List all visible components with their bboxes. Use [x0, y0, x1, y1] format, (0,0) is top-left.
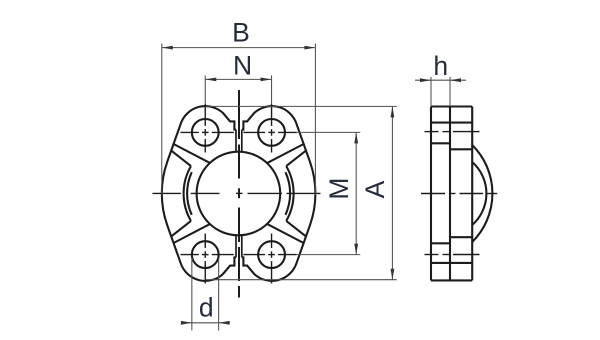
dimension d extension line right [218, 258, 220, 331]
svg-text:A: A [360, 180, 390, 198]
dimension N line [205, 78, 271, 80]
centerline horizontal of bolt hole bottom-left [181, 254, 199, 256]
centerline vertical of bolt hole top-left [204, 104, 206, 126]
side view bottom edge [431, 279, 472, 281]
clamp outline right half [242, 106, 316, 281]
dimension B arrow right [304, 46, 315, 50]
dimension h extension line right [449, 77, 451, 106]
dimension d arrow right [219, 321, 230, 325]
split face lower left [235, 235, 237, 257]
jaw line upper-left inner [174, 144, 210, 163]
svg-text:N: N [233, 50, 252, 80]
main horizontal centerline [153, 192, 181, 194]
svg-text:d: d [199, 293, 214, 323]
centerline horizontal of bolt hole top-left [181, 131, 199, 133]
dimension h extension line left [430, 77, 432, 106]
centerline vertical of bolt hole bottom-right [271, 234, 273, 249]
bolt hole top-left [192, 119, 219, 146]
clamp outline left half [162, 106, 236, 281]
side view upper plate step [431, 142, 450, 144]
dimension h line [415, 79, 466, 81]
dimension A extension line top [206, 105, 397, 107]
dimension A arrow bottom [391, 269, 395, 280]
centerline vertical of bolt hole top-right [271, 104, 273, 126]
dimension M extension line top [297, 131, 360, 133]
jaw line lower-left inner [174, 224, 210, 243]
dimension N arrow left [205, 78, 216, 82]
side view lower step line [431, 262, 472, 264]
jaw line upper-right inner [267, 144, 303, 163]
dimension A extension line bottom [206, 279, 397, 281]
dimension B extension line left [161, 44, 163, 196]
seat arc outer right [286, 166, 293, 221]
bolt hole top-right [258, 119, 285, 146]
seat arc inner right [285, 172, 290, 215]
side view plate face vertical [449, 107, 451, 281]
side view spherical head inner arc [472, 162, 486, 225]
side view left edge [430, 107, 432, 281]
jaw line lower-left outer [171, 221, 191, 237]
dimension B extension line right [314, 44, 316, 196]
side view lower plate step [431, 242, 450, 244]
jaw line lower-right inner [267, 224, 303, 243]
seat arc inner left [187, 172, 192, 215]
side view hub bottom [450, 236, 472, 238]
dimension h arrow left [420, 78, 431, 82]
dimension A line [391, 106, 393, 279]
dimension B arrow left [162, 46, 173, 50]
jaw line upper-left outer [171, 151, 191, 167]
dimension N arrow right [261, 78, 272, 82]
dimension M arrow top [354, 132, 358, 143]
main vertical centerline (split axis) [238, 90, 240, 139]
dimension d arrow left [181, 321, 192, 325]
svg-text:M: M [324, 178, 354, 200]
centerline vertical of bolt hole bottom-left [204, 234, 206, 249]
bore circle [197, 152, 281, 236]
dimension M line [355, 132, 357, 254]
dimension A arrow top [391, 106, 395, 117]
side view spherical head outer arc [472, 145, 492, 242]
bolt hole bottom-left [192, 241, 219, 268]
centerline horizontal of bolt hole bottom-right [243, 254, 265, 256]
side view right edge [471, 107, 473, 281]
bolt hole bottom-right [258, 241, 285, 268]
split face upper right [241, 130, 243, 152]
dimension M extension line bottom [297, 254, 360, 256]
dimension d line [181, 322, 230, 324]
jaw line upper-right outer [286, 151, 306, 167]
split face upper left [235, 130, 237, 152]
dimension h arrow right [450, 78, 461, 82]
side view horizontal centerline [421, 193, 445, 195]
dimension M arrow bottom [354, 244, 358, 255]
dimension N extension line right [271, 75, 273, 104]
dimension B line [162, 47, 316, 49]
side view top edge [431, 105, 472, 107]
jaw line lower-right outer [286, 221, 306, 237]
svg-text:h: h [433, 51, 448, 81]
dimension N extension line left [204, 75, 206, 104]
side view hub top [450, 148, 472, 150]
centerline horizontal of bolt hole top-right [243, 131, 265, 133]
side view upper bolt centerline [425, 131, 439, 133]
dimension d extension line left [191, 258, 193, 331]
seat arc outer left [184, 166, 191, 221]
split face lower right [241, 235, 243, 257]
side view upper step line [431, 122, 472, 124]
side view lower bolt centerline [425, 254, 439, 256]
svg-text:B: B [232, 18, 250, 48]
